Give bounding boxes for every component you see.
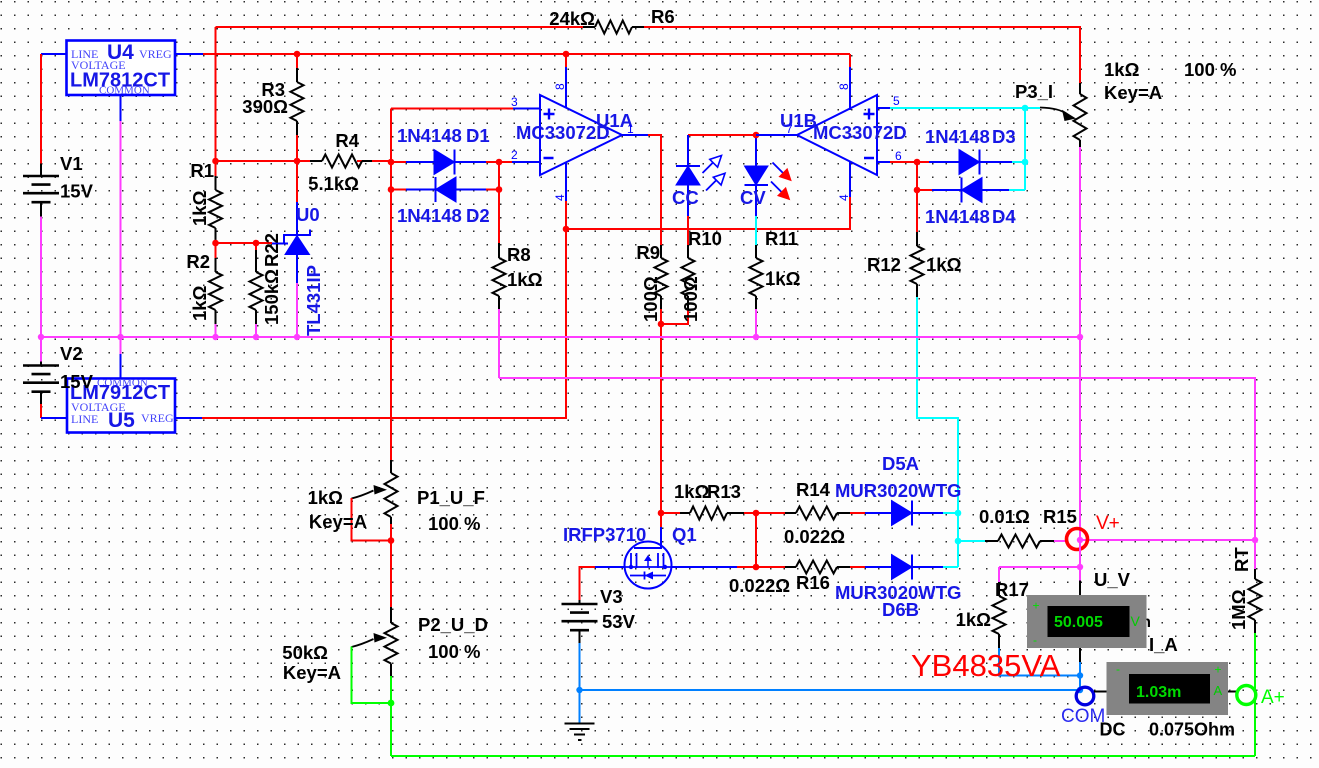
- svg-text:V: V: [1131, 613, 1141, 629]
- svg-text:7: 7: [786, 122, 793, 136]
- svg-text:Q1: Q1: [672, 524, 697, 545]
- svg-text:15V: 15V: [60, 181, 94, 202]
- svg-text:1kΩ: 1kΩ: [1104, 59, 1140, 80]
- svg-text:I_A: I_A: [1149, 634, 1178, 655]
- svg-text:TL431IP: TL431IP: [303, 265, 324, 336]
- svg-text:100 %: 100 %: [428, 641, 480, 662]
- svg-text:R1: R1: [190, 160, 214, 181]
- wire node y=243 row: [216, 242, 273, 244]
- svg-text:D5A: D5A: [882, 453, 919, 474]
- op-amp U1A MC33072D: [540, 95, 622, 175]
- voltage source V1 15V: [40, 54, 42, 164]
- svg-text:1N4148: 1N4148: [397, 205, 462, 226]
- svg-text:5.1kΩ: 5.1kΩ: [308, 173, 359, 194]
- svg-text:R15: R15: [1043, 506, 1077, 527]
- svg-text:YB4835VA: YB4835VA: [911, 648, 1061, 683]
- wire P3 bottom to bus: [1079, 147, 1081, 540]
- svg-text:V3: V3: [600, 586, 623, 607]
- svg-text:53V: 53V: [602, 611, 636, 632]
- svg-text:CC: CC: [672, 187, 699, 208]
- svg-text:50kΩ: 50kΩ: [282, 642, 328, 663]
- svg-text:IRFP3710: IRFP3710: [563, 524, 646, 545]
- svg-text:6: 6: [895, 149, 902, 163]
- resistor R22 150k: [255, 243, 257, 250]
- svg-text:CV: CV: [740, 187, 766, 208]
- svg-text:R4: R4: [335, 130, 359, 151]
- svg-text:R22: R22: [261, 233, 282, 267]
- svg-text:VREG: VREG: [141, 411, 174, 425]
- svg-text:100Ω: 100Ω: [680, 276, 701, 322]
- svg-text:8: 8: [553, 83, 567, 90]
- svg-text:100 %: 100 %: [1184, 59, 1236, 80]
- terminal A+: [1237, 686, 1256, 705]
- wire V+ node magenta: [1080, 539, 1255, 541]
- svg-text:1MΩ: 1MΩ: [1228, 589, 1249, 630]
- svg-text:R6: R6: [651, 6, 675, 27]
- wire Q1 drain row: [672, 566, 738, 568]
- svg-text:-: -: [1033, 633, 1037, 647]
- wire U4 COMMON pin: [120, 95, 122, 121]
- resistor R16 0.022: [756, 566, 865, 568]
- svg-text:R12: R12: [867, 254, 901, 275]
- svg-text:D1: D1: [466, 125, 490, 146]
- regulator U4 LM7812CT: [67, 41, 176, 96]
- resistor R2 1k: [215, 243, 217, 258]
- svg-text:RT: RT: [1231, 547, 1252, 572]
- wire U1B pin6 net: [877, 161, 890, 163]
- resistor R12 1k: [916, 232, 918, 297]
- svg-text:24kΩ: 24kΩ: [549, 8, 595, 29]
- wire +15V top bus y=27: [216, 27, 1081, 161]
- svg-text:390Ω: 390Ω: [242, 96, 288, 117]
- svg-text:P3_I: P3_I: [1015, 81, 1053, 102]
- svg-text:U0: U0: [296, 204, 320, 225]
- svg-text:1N4148: 1N4148: [397, 125, 462, 146]
- wire U1B pin5 net: [877, 107, 890, 109]
- MOSFET Q1 IRFP3710: [625, 542, 672, 589]
- svg-text:1kΩ: 1kΩ: [507, 269, 543, 290]
- wire voltmeter minus: [1079, 648, 1081, 662]
- svg-text:Key=A: Key=A: [309, 511, 367, 532]
- LED CV indicator: [755, 135, 757, 166]
- resistor R14 0.022: [756, 512, 865, 514]
- wire node y=161 row: [216, 160, 392, 162]
- resistor R15 0.01 + terminal V+: [958, 540, 985, 542]
- svg-text:V+: V+: [1096, 513, 1120, 534]
- svg-text:R10: R10: [688, 228, 722, 249]
- diode D6B MUR3020WTG: [865, 566, 943, 568]
- resistor R4 5.1k: [310, 160, 372, 162]
- svg-text:U5: U5: [108, 409, 135, 432]
- svg-text:Key=A: Key=A: [1104, 82, 1162, 103]
- svg-text:VREG: VREG: [139, 47, 172, 61]
- svg-text:D6B: D6B: [882, 599, 919, 620]
- svg-text:R11: R11: [765, 228, 798, 249]
- svg-text:D2: D2: [466, 205, 490, 226]
- wire gate node x=661: [660, 513, 662, 527]
- svg-text:V2: V2: [60, 343, 83, 364]
- wire -12V bus y=229: [566, 197, 850, 229]
- shunt reference U0 TL431IP: [296, 161, 298, 202]
- wire D1/D2 right x=499 + U1A pin2 stub: [499, 162, 512, 243]
- wire +12V bus y=54: [41, 53, 203, 55]
- svg-text:A+: A+: [1261, 687, 1285, 708]
- wire U1A pin4: [565, 162, 567, 201]
- terminal COM: [1076, 687, 1094, 705]
- svg-text:1kΩ: 1kΩ: [308, 487, 344, 508]
- svg-text:-: -: [1116, 662, 1120, 676]
- diode D1 1N4148: [391, 161, 406, 163]
- svg-text:MC33072D: MC33072D: [516, 122, 610, 143]
- svg-text:V1: V1: [60, 153, 83, 174]
- svg-text:1kΩ: 1kΩ: [765, 268, 801, 289]
- svg-text:1N4148: 1N4148: [925, 206, 990, 227]
- diode D2 1N4148: [391, 189, 406, 191]
- svg-text:1kΩ: 1kΩ: [956, 609, 992, 630]
- svg-text:50.005: 50.005: [1054, 614, 1103, 631]
- svg-text:1: 1: [627, 122, 634, 136]
- svg-text:MUR3020WTG: MUR3020WTG: [835, 480, 961, 501]
- svg-text:COMMON: COMMON: [99, 85, 150, 97]
- svg-text:DC: DC: [1100, 720, 1126, 740]
- svg-text:R13: R13: [707, 481, 741, 502]
- wire feedback node D1/D2 left x=391: [391, 109, 513, 461]
- svg-text:Key=A: Key=A: [283, 662, 341, 683]
- svg-text:R17: R17: [995, 579, 1029, 600]
- svg-text:1kΩ: 1kΩ: [926, 254, 962, 275]
- resistor R13 1k: [661, 512, 756, 514]
- svg-text:100 %: 100 %: [428, 513, 480, 534]
- svg-text:4: 4: [553, 194, 567, 201]
- svg-text:0.01Ω: 0.01Ω: [979, 506, 1030, 527]
- svg-text:4: 4: [837, 194, 851, 201]
- svg-text:D4: D4: [992, 206, 1016, 227]
- svg-text:R2: R2: [186, 251, 210, 272]
- wire U1A pin3 stub: [513, 108, 540, 110]
- wire U1A pin8 stub: [565, 54, 567, 67]
- ground: [565, 724, 595, 741]
- svg-text:1N4148: 1N4148: [925, 126, 990, 147]
- svg-text:+: +: [1215, 663, 1222, 677]
- diode D5A MUR3020WTG: [865, 512, 943, 514]
- voltmeter U_V: [1027, 595, 1147, 648]
- wire CV to R11: [755, 216, 757, 245]
- potentiometer P1_U_F 1k: [390, 460, 392, 524]
- resistor R11 1k: [755, 245, 757, 309]
- resistor RT 1M: [1254, 540, 1256, 569]
- svg-text:U_V: U_V: [1094, 569, 1131, 590]
- svg-text:1kΩ: 1kΩ: [189, 285, 210, 321]
- wire output green bus: [391, 755, 1255, 757]
- svg-text:1kΩ: 1kΩ: [189, 190, 210, 226]
- svg-text:0.022Ω: 0.022Ω: [729, 575, 790, 596]
- svg-text:LINE: LINE: [71, 412, 98, 426]
- resistor R1 1k: [215, 161, 217, 176]
- potentiometer P3_I 1k: [1079, 83, 1081, 147]
- svg-text:8: 8: [837, 83, 851, 90]
- terminal V+: [1067, 529, 1088, 550]
- diode D3 1N4148: [929, 161, 1012, 163]
- svg-text:15V: 15V: [60, 371, 94, 392]
- svg-text:D3: D3: [992, 126, 1016, 147]
- op-amp U1B MC33072D: [797, 95, 877, 175]
- svg-text:R9: R9: [636, 242, 660, 263]
- svg-text:+: +: [1033, 599, 1040, 613]
- svg-text:1kΩ: 1kΩ: [674, 481, 710, 502]
- svg-text:R16: R16: [796, 572, 830, 593]
- svg-text:MC33072D: MC33072D: [813, 122, 907, 143]
- voltage source V3 53V: [579, 600, 581, 643]
- voltage source V2 15V: [40, 337, 42, 362]
- wire to voltmeter + / R17: [999, 540, 1080, 582]
- wire U1A output to R9 branch: [622, 134, 648, 136]
- svg-text:0.075Ohm: 0.075Ohm: [1149, 720, 1235, 740]
- wire common bus y=337: [41, 336, 1080, 338]
- svg-text:A: A: [1214, 683, 1223, 698]
- svg-text:5: 5: [893, 94, 900, 108]
- svg-text:3: 3: [511, 95, 518, 109]
- wire V3 to COM: [580, 689, 1081, 691]
- wire U5 COMMON pin: [120, 337, 122, 354]
- resistor R3 390: [296, 54, 298, 161]
- svg-text:1.03m: 1.03m: [1136, 684, 1181, 701]
- diode D4 1N4148: [917, 189, 932, 191]
- resistor R6 24k: [583, 26, 644, 28]
- LED CC indicator: [688, 134, 756, 136]
- wire CC to R10: [687, 216, 689, 245]
- svg-text:P2_U_D: P2_U_D: [418, 614, 488, 635]
- svg-text:R8: R8: [507, 244, 531, 265]
- resistor R8 1k: [498, 243, 500, 309]
- wire R12 to diode bridge (cyan): [917, 297, 958, 567]
- svg-text:100Ω: 100Ω: [640, 276, 661, 322]
- svg-text:R14: R14: [796, 479, 831, 500]
- svg-text:0.022Ω: 0.022Ω: [784, 526, 845, 547]
- potentiometer P2_U_D 50k: [606, 606, 608, 608]
- wire Q1 source to V3: [595, 566, 625, 568]
- svg-text:150kΩ: 150kΩ: [261, 269, 282, 325]
- resistor R17 1k: [998, 582, 1000, 648]
- resistor R10 100: [687, 245, 689, 309]
- svg-text:2: 2: [511, 148, 518, 162]
- svg-text:P1_U_F: P1_U_F: [417, 487, 485, 508]
- regulator U5 LM7912CT: [67, 379, 175, 433]
- resistor R9 100: [660, 245, 662, 309]
- wire U5 VREG riser x=566: [202, 229, 566, 418]
- wire U1B pin4: [756, 134, 797, 136]
- wire feedback bus y=378: [499, 378, 1255, 540]
